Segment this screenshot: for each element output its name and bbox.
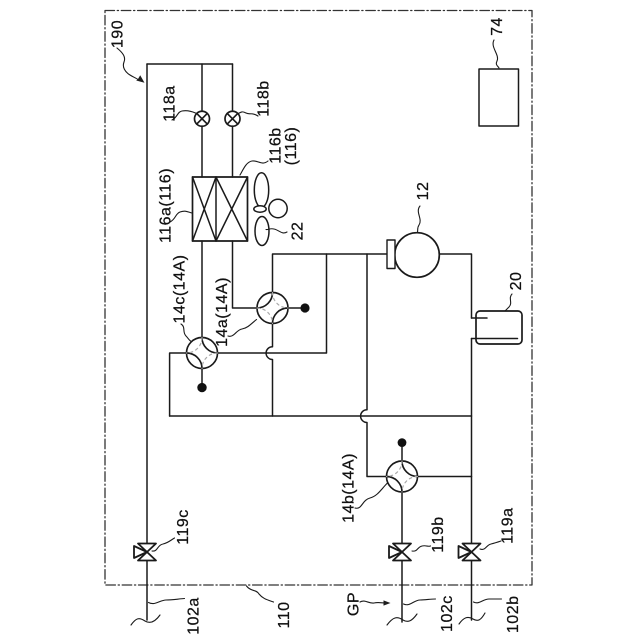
pipe break squiggle 102b [459, 613, 485, 624]
wire branch from suction to 14c right port [218, 254, 327, 353]
svg-text:102a: 102a [185, 597, 202, 635]
wire right HX branch upper [232, 64, 234, 111]
svg-text:110: 110 [276, 601, 293, 628]
heat exchanger 116b diagonals [216, 177, 248, 241]
wire left liquid line below valve 119c [146, 561, 148, 621]
compressor 12 inlet block [387, 240, 395, 269]
svg-text:116a(116): 116a(116) [157, 168, 174, 243]
svg-text:74: 74 [489, 17, 506, 36]
wire below valve 119a [471, 561, 473, 621]
leader 119c [152, 538, 175, 551]
wire right HX branch lower to 14a [233, 241, 258, 308]
leader 22 [266, 229, 287, 233]
leader 118a [172, 111, 196, 120]
leader 14c [181, 324, 191, 341]
leader 116a [170, 211, 192, 222]
svg-text:190: 190 [109, 20, 126, 48]
heat exchanger 116a/116b outline [193, 177, 248, 241]
svg-text:102c: 102c [439, 595, 456, 632]
solenoid valve 118a [195, 111, 210, 126]
service valve 119b [389, 544, 411, 561]
svg-text:116b: 116b [267, 127, 284, 163]
fan 22 hub [254, 206, 266, 212]
leader 119a [480, 541, 501, 549]
wire compressor discharge to tank 20 [439, 254, 471, 318]
leader 119b [412, 546, 431, 551]
node dot near 14a [300, 303, 309, 312]
leader 110 [247, 586, 274, 602]
node dot below 14c [197, 383, 206, 392]
leader 12 [418, 206, 421, 232]
svg-text:(116): (116) [283, 127, 300, 166]
svg-text:119a: 119a [499, 507, 516, 543]
leader 20 [505, 294, 512, 311]
wire top header [147, 63, 233, 65]
svg-text:119c: 119c [175, 509, 192, 545]
pipe break squiggle 102a [131, 615, 160, 625]
leader 14a [228, 320, 257, 337]
wire left liquid line (upper) [146, 64, 148, 544]
wire 14b bottom to valve 119b [401, 492, 403, 544]
wire bottom header [170, 415, 472, 417]
leader 190 with arrow [117, 48, 138, 80]
leader GP arrow [360, 601, 386, 603]
heat exchanger center divider [215, 177, 217, 241]
arrowhead 190 [136, 75, 144, 83]
wire 14b top stem to node [401, 447, 403, 461]
accumulator tank 20 [476, 311, 522, 344]
fan 22 lower blade [255, 217, 269, 246]
svg-text:20: 20 [508, 272, 525, 291]
wire tank outlet down to valve 119a [471, 339, 473, 544]
leader 102b [474, 599, 502, 603]
wire compressor suction line [273, 254, 388, 293]
solenoid valve 118b [225, 111, 240, 126]
leader 116b [240, 161, 268, 175]
leader 118b [239, 112, 259, 116]
wire 14a right stem to node [288, 307, 300, 309]
pipe break squiggle 102c [387, 614, 417, 625]
svg-text:22: 22 [289, 222, 306, 241]
svg-text:14c(14A): 14c(14A) [171, 255, 188, 324]
four-way valve 14b [387, 461, 418, 492]
svg-text:118b: 118b [255, 80, 272, 116]
arrowhead GP [384, 600, 391, 605]
wire branch from suction down to 14b left port (with jump) [361, 254, 387, 477]
wire left HX branch lower to 14c [201, 241, 203, 338]
leader 14b [355, 483, 388, 508]
controller box 74 [479, 69, 519, 126]
wire 14b right port to right line [418, 476, 472, 478]
svg-text:12: 12 [415, 182, 432, 201]
wire tank inlet port [472, 317, 488, 319]
leader 102c [404, 599, 436, 605]
compressor 12 body [395, 233, 440, 278]
leader 102a [149, 599, 185, 604]
fan 22 motor [269, 199, 287, 217]
service valve 119a [459, 544, 481, 561]
wire right HX branch between 118b and HX [232, 126, 234, 177]
svg-text:14b(14A): 14b(14A) [341, 453, 358, 523]
node dot above 14b [398, 438, 407, 447]
system boundary 190 (dash-dot border) [105, 11, 532, 586]
wire left HX branch upper [201, 64, 203, 111]
wire 14a bottom to bottom header (with jump) [266, 324, 272, 417]
svg-text:102b: 102b [505, 596, 522, 634]
wire 14c bottom stem to node [201, 369, 203, 384]
svg-text:118a: 118a [161, 85, 178, 121]
svg-text:119b: 119b [430, 516, 447, 552]
leader 74 [493, 40, 499, 68]
wire below valve 119b [401, 561, 403, 623]
svg-text:GP: GP [345, 592, 362, 616]
wire left HX branch between 118a and HX [201, 126, 203, 177]
wire 14c left port loop [170, 353, 187, 416]
heat exchanger 116a diagonals [193, 177, 217, 241]
svg-text:14a(14A): 14a(14A) [214, 277, 231, 347]
four-way valve 14a [257, 293, 288, 324]
service valve 119c [134, 544, 156, 561]
wire tank outlet pickup tube [472, 338, 518, 340]
four-way valve 14c [187, 338, 218, 369]
fan 22 upper blade [254, 173, 268, 208]
